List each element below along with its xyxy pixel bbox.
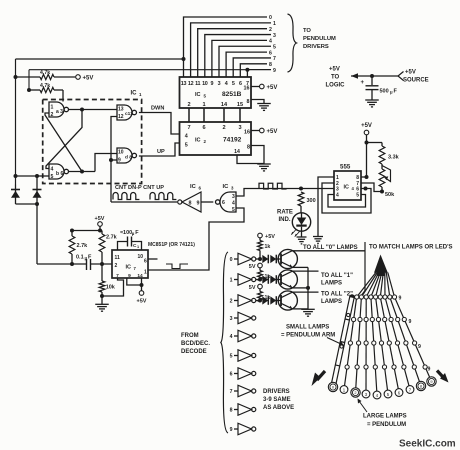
svg-text:0.1: 0.1 xyxy=(76,255,84,261)
svg-text:2: 2 xyxy=(230,299,233,305)
svg-text:7: 7 xyxy=(273,56,276,62)
svg-text:IC: IC xyxy=(344,185,349,191)
svg-text:500: 500 xyxy=(380,89,389,95)
svg-text:16: 16 xyxy=(244,86,250,92)
svg-text:PENDULUM: PENDULUM xyxy=(303,36,336,42)
svg-text:5: 5 xyxy=(230,354,233,360)
svg-text:4: 4 xyxy=(232,200,235,206)
svg-text:FROM: FROM xyxy=(181,333,199,339)
svg-text:12: 12 xyxy=(188,81,194,87)
svg-text:3.3k: 3.3k xyxy=(388,155,400,161)
svg-text:2: 2 xyxy=(269,27,272,33)
svg-text:2: 2 xyxy=(187,102,190,108)
svg-text:LOGIC: LOGIC xyxy=(326,83,346,89)
svg-text:+: + xyxy=(360,80,364,86)
svg-text:4: 4 xyxy=(336,193,339,199)
svg-text:RATE: RATE xyxy=(277,210,293,216)
svg-text:TO ALL "0" LAMPS: TO ALL "0" LAMPS xyxy=(303,245,358,251)
svg-text:15: 15 xyxy=(237,102,243,108)
svg-text:1k: 1k xyxy=(265,244,271,250)
svg-text:6: 6 xyxy=(144,259,147,265)
svg-text:9: 9 xyxy=(128,273,131,279)
svg-text:9: 9 xyxy=(211,81,214,87)
svg-text:5V: 5V xyxy=(249,285,256,291)
svg-text:DRIVERS: DRIVERS xyxy=(263,389,290,395)
svg-text:+5V: +5V xyxy=(361,123,372,129)
svg-text:+5V: +5V xyxy=(405,70,416,76)
svg-text:+5V: +5V xyxy=(83,75,94,81)
svg-text:1: 1 xyxy=(230,278,233,284)
svg-text:TO ALL "1": TO ALL "1" xyxy=(321,273,353,279)
svg-text:CNT DN-P CNT UP: CNT DN-P CNT UP xyxy=(115,185,164,191)
svg-text:DRIVERS: DRIVERS xyxy=(303,44,329,50)
svg-text:2: 2 xyxy=(222,125,225,131)
svg-text:8: 8 xyxy=(230,408,233,414)
svg-text:9: 9 xyxy=(399,296,402,302)
svg-text:300: 300 xyxy=(307,198,316,204)
svg-text:LAMPS: LAMPS xyxy=(321,281,342,287)
svg-text:DECODE: DECODE xyxy=(181,349,207,355)
svg-text:6: 6 xyxy=(230,372,233,378)
svg-text:d 8: d 8 xyxy=(125,154,132,160)
svg-text:1: 1 xyxy=(202,102,205,108)
svg-text:4: 4 xyxy=(185,134,188,140)
svg-text:12: 12 xyxy=(118,114,124,120)
svg-text:IC: IC xyxy=(223,184,230,190)
svg-text:9: 9 xyxy=(430,379,432,384)
svg-text:5V: 5V xyxy=(249,264,256,270)
svg-text:10: 10 xyxy=(202,81,208,87)
svg-text:10: 10 xyxy=(137,254,143,260)
svg-text:9: 9 xyxy=(428,367,431,373)
svg-text:7: 7 xyxy=(187,125,190,131)
svg-text:14: 14 xyxy=(221,102,228,108)
svg-text:TO MATCH LAMPS OR LED'S: TO MATCH LAMPS OR LED'S xyxy=(369,245,453,251)
svg-text:8: 8 xyxy=(269,62,272,68)
svg-text:13: 13 xyxy=(118,107,124,113)
svg-text:3-9 SAME: 3-9 SAME xyxy=(263,397,291,403)
svg-text:AS ABOVE: AS ABOVE xyxy=(263,405,294,411)
svg-text:2: 2 xyxy=(354,390,356,395)
svg-text:SMALL LAMPS: SMALL LAMPS xyxy=(286,325,329,331)
svg-text:1: 1 xyxy=(137,245,139,249)
svg-text:0: 0 xyxy=(230,257,233,263)
svg-text:c11: c11 xyxy=(125,111,133,117)
svg-text:0: 0 xyxy=(269,15,272,21)
svg-text:UP: UP xyxy=(157,149,165,155)
svg-text:14: 14 xyxy=(234,149,240,155)
svg-text:2: 2 xyxy=(51,112,54,118)
svg-text:3: 3 xyxy=(230,316,233,322)
svg-text:9: 9 xyxy=(230,427,233,433)
svg-text:IC: IC xyxy=(195,92,201,98)
svg-text:9: 9 xyxy=(409,319,412,325)
svg-text:2: 2 xyxy=(115,263,118,269)
svg-text:11: 11 xyxy=(195,81,200,87)
svg-text:3: 3 xyxy=(238,125,241,131)
svg-text:5: 5 xyxy=(232,81,235,87)
svg-text:3: 3 xyxy=(218,81,221,87)
svg-text:5: 5 xyxy=(232,207,235,213)
svg-text:6: 6 xyxy=(239,81,242,87)
svg-text:74192: 74192 xyxy=(223,137,242,144)
svg-text:1: 1 xyxy=(144,270,147,276)
svg-text:3: 3 xyxy=(273,33,276,39)
svg-text:+5V: +5V xyxy=(267,129,278,135)
svg-text:≈100: ≈100 xyxy=(120,230,132,236)
svg-text:SeekIC.com: SeekIC.com xyxy=(399,439,456,450)
svg-text:7: 7 xyxy=(230,389,233,395)
svg-text:4: 4 xyxy=(51,166,54,172)
svg-text:6: 6 xyxy=(222,200,225,206)
svg-text:16: 16 xyxy=(244,130,250,136)
svg-text:8251B: 8251B xyxy=(222,91,242,98)
svg-text:8: 8 xyxy=(247,145,250,151)
svg-text:4.7k: 4.7k xyxy=(40,83,50,89)
svg-text:9: 9 xyxy=(273,68,276,74)
svg-text:5: 5 xyxy=(356,193,359,199)
svg-text:+5V: +5V xyxy=(95,216,105,222)
svg-text:+5V: +5V xyxy=(329,67,340,73)
svg-text:TO: TO xyxy=(303,28,311,34)
svg-text:+5V: +5V xyxy=(267,85,278,91)
svg-text:a 3: a 3 xyxy=(56,109,63,115)
svg-text:6: 6 xyxy=(202,125,205,131)
svg-text:10k: 10k xyxy=(106,285,116,291)
svg-text:6: 6 xyxy=(269,50,272,56)
svg-text:IC: IC xyxy=(131,91,138,97)
svg-text:LARGE LAMPS: LARGE LAMPS xyxy=(363,414,407,420)
svg-text:+5V: +5V xyxy=(265,234,275,240)
svg-text:5: 5 xyxy=(51,174,54,180)
svg-text:5: 5 xyxy=(273,44,276,50)
svg-text:2.7k: 2.7k xyxy=(77,243,89,249)
svg-text:IND.: IND. xyxy=(279,217,291,223)
svg-text:9: 9 xyxy=(197,200,200,206)
svg-text:2.7k: 2.7k xyxy=(106,235,118,241)
svg-text:10: 10 xyxy=(118,150,124,156)
svg-text:DWN: DWN xyxy=(151,106,164,112)
svg-text:8: 8 xyxy=(420,384,422,389)
svg-text:4: 4 xyxy=(225,81,228,87)
svg-text:TO: TO xyxy=(331,75,340,81)
svg-text:LAMPS: LAMPS xyxy=(321,299,342,305)
svg-text:50k: 50k xyxy=(385,192,395,198)
svg-text:MC851P (OR 74121): MC851P (OR 74121) xyxy=(148,242,195,248)
svg-text:8: 8 xyxy=(247,99,250,105)
svg-text:555: 555 xyxy=(340,164,351,171)
svg-text:4: 4 xyxy=(230,334,233,340)
svg-text:IC: IC xyxy=(126,265,132,271)
svg-text:4: 4 xyxy=(269,39,272,45)
svg-text:IC: IC xyxy=(190,184,197,190)
svg-text:+5V: +5V xyxy=(137,299,147,305)
svg-text:= PENDULUM: = PENDULUM xyxy=(367,422,406,428)
svg-text:4.7k: 4.7k xyxy=(40,70,50,76)
svg-text:3: 3 xyxy=(232,194,235,200)
svg-text:b 6: b 6 xyxy=(56,171,63,177)
svg-text:TO ALL "2": TO ALL "2" xyxy=(321,292,353,298)
svg-text:13: 13 xyxy=(181,81,187,87)
svg-text:9: 9 xyxy=(418,344,421,350)
svg-text:SOURCE: SOURCE xyxy=(403,78,429,84)
svg-text:8: 8 xyxy=(189,200,192,206)
svg-text:9: 9 xyxy=(118,157,121,163)
svg-text:BCD/DEC.: BCD/DEC. xyxy=(181,341,210,347)
svg-text:5: 5 xyxy=(185,143,188,149)
svg-text:IC: IC xyxy=(195,138,201,144)
svg-text:1: 1 xyxy=(273,21,276,27)
svg-text:1: 1 xyxy=(51,104,54,110)
svg-text:11: 11 xyxy=(115,255,121,261)
